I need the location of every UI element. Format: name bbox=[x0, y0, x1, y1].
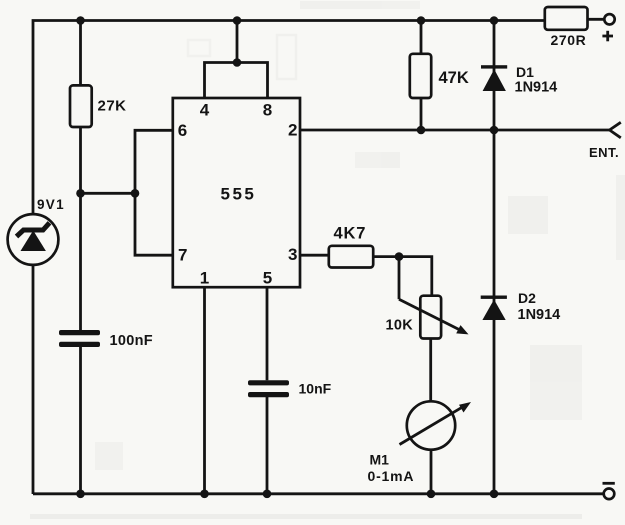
wire 270R to + terminal bbox=[588, 18, 605, 21]
junction 4K7 output / wiper bbox=[395, 252, 404, 261]
junction top rail / 27K branch bbox=[76, 16, 85, 25]
wire top supply rail bbox=[33, 21, 545, 495]
junction pin2 wire / D1-D2 bbox=[490, 126, 499, 135]
junction top rail / 555 pin4-8 branch bbox=[233, 16, 242, 25]
svg-text:100nF: 100nF bbox=[110, 333, 153, 349]
svg-text:6: 6 bbox=[178, 121, 187, 140]
svg-text:7: 7 bbox=[178, 246, 187, 265]
junction pin2 wire / 47K bbox=[417, 126, 426, 135]
junction bottom rail / D1-D2 branch bbox=[490, 490, 499, 499]
svg-text:ENT.: ENT. bbox=[589, 145, 619, 160]
svg-text:1: 1 bbox=[200, 268, 209, 287]
svg-text:5: 5 bbox=[263, 268, 272, 287]
diode D2 1N914 bbox=[481, 296, 507, 321]
svg-text:47K: 47K bbox=[439, 69, 469, 87]
resistor 27K bbox=[70, 85, 92, 127]
wire 555 pins 6-7 link bbox=[135, 130, 173, 255]
svg-text:8: 8 bbox=[263, 100, 272, 119]
junction pin6-7 link / 27K node bbox=[131, 189, 140, 198]
junction bottom rail / pin1 bbox=[200, 490, 209, 499]
IC 555 timer U1 bbox=[173, 98, 300, 287]
svg-text:2: 2 bbox=[288, 120, 297, 139]
junction bottom rail / pin5 bbox=[263, 490, 272, 499]
diode D1 1N914 bbox=[481, 65, 507, 91]
wire D1 D2 branch bbox=[493, 21, 496, 494]
capacitor 100nF bbox=[59, 330, 100, 347]
wire 555 pin1 to ground bbox=[203, 287, 206, 494]
svg-text:3: 3 bbox=[288, 245, 297, 264]
wire 555 pins 4-8 to supply bbox=[205, 21, 268, 99]
svg-text:4: 4 bbox=[200, 100, 210, 119]
junction bottom rail / meter bbox=[427, 490, 436, 499]
svg-text:10nF: 10nF bbox=[299, 381, 332, 397]
svg-text:0-1mA: 0-1mA bbox=[368, 468, 415, 484]
wire 555 pin3 to 4K7 bbox=[300, 254, 329, 257]
ENT input arrowhead bbox=[610, 122, 621, 138]
wire 4K7 to potentiometer top bbox=[373, 257, 432, 296]
wire meter to ground bbox=[430, 450, 433, 494]
resistor 270R bbox=[545, 7, 588, 30]
wire 27K / 100nF branch bbox=[79, 21, 82, 494]
svg-text:555: 555 bbox=[221, 185, 257, 204]
wire 27K node to pin6-7 link bbox=[81, 192, 136, 195]
junction bottom rail / 100nF bbox=[76, 490, 85, 499]
svg-text:1N914: 1N914 bbox=[515, 80, 558, 96]
svg-text:9V1: 9V1 bbox=[37, 197, 65, 212]
svg-text:D1: D1 bbox=[516, 64, 534, 80]
svg-text:27K: 27K bbox=[98, 97, 127, 114]
svg-text:1N914: 1N914 bbox=[518, 307, 561, 323]
terminal - output bbox=[604, 489, 615, 500]
resistor 47K bbox=[410, 54, 431, 98]
plus sign bbox=[602, 31, 613, 42]
junction top rail / D1 branch bbox=[490, 16, 499, 25]
wire potentiometer to meter bbox=[429, 339, 432, 402]
wire 555 pin5 / 10nF branch bbox=[266, 287, 269, 494]
svg-text:M1: M1 bbox=[370, 451, 390, 467]
junction pins 4-8 link bbox=[233, 58, 242, 67]
wire bottom ground rail bbox=[33, 492, 603, 495]
potentiometer 10K bbox=[399, 257, 469, 339]
capacitor 10nF bbox=[248, 380, 289, 397]
junction top rail / 47K branch bbox=[417, 16, 426, 25]
junction 27K bottom / pin6 wire bbox=[76, 189, 85, 198]
minus sign bbox=[603, 482, 615, 485]
svg-text:4K7: 4K7 bbox=[334, 225, 367, 243]
meter M1 bbox=[400, 401, 472, 449]
wire 47K branch bbox=[420, 21, 423, 131]
terminal + output bbox=[604, 14, 614, 24]
svg-text:10K: 10K bbox=[386, 318, 414, 334]
resistor 4K7 bbox=[329, 246, 373, 268]
wire 555 pin2 to ENT input bbox=[300, 129, 610, 132]
svg-text:D2: D2 bbox=[518, 290, 536, 306]
svg-text:270R: 270R bbox=[551, 32, 587, 48]
zener diode 9V1 bbox=[8, 214, 59, 265]
